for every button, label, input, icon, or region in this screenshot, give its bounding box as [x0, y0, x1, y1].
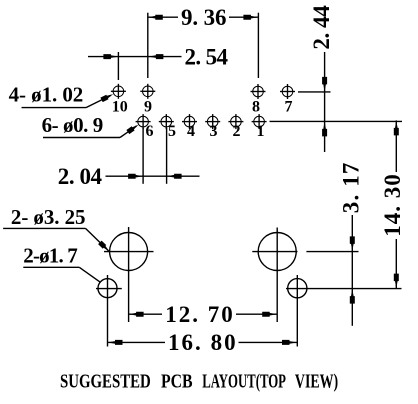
svg-text:3. 17: 3. 17: [339, 163, 364, 214]
dim 14.30 line bottom: [395, 239, 397, 289]
dim 9.36 line right: [229, 16, 258, 18]
pad 10: [111, 84, 126, 99]
dim 2.54 line: [88, 56, 182, 58]
svg-text:6- ø0. 9: 6- ø0. 9: [42, 113, 104, 137]
hole small right: [288, 279, 307, 298]
arrow 14.30 top: [394, 120, 399, 135]
leader arrow 2-o3.25: [98, 241, 109, 252]
svg-text:8: 8: [252, 99, 260, 116]
center line small right vertical: [296, 275, 298, 347]
dim 14.30 line top: [395, 120, 397, 172]
center line big right vertical: [276, 228, 278, 323]
arrow 2.54 right: [148, 54, 163, 59]
dim 3.17 line: [351, 215, 353, 326]
dim 2.54 ext: [117, 52, 119, 80]
dim 2.04 ext right: [166, 128, 168, 184]
svg-text:4- ø1. 02: 4- ø1. 02: [9, 83, 84, 107]
svg-text:2: 2: [233, 123, 241, 140]
leader arrow 6-o0.9: [126, 125, 138, 135]
center line big right horizontal ext: [306, 251, 358, 253]
svg-text:2. 04: 2. 04: [58, 164, 103, 189]
svg-text:SUGGESTED: SUGGESTED: [60, 371, 151, 393]
svg-text:2- ø3. 25: 2- ø3. 25: [11, 205, 86, 229]
svg-text:2-ø1. 7: 2-ø1. 7: [23, 244, 78, 268]
svg-text:12. 70: 12. 70: [165, 302, 232, 327]
leader 4-o1.02 diagonal: [86, 96, 111, 108]
svg-text:LAYOUT(TOP: LAYOUT(TOP: [202, 371, 286, 393]
arrow 2.04 left: [128, 174, 143, 179]
arrow 2.04 right: [167, 174, 182, 179]
arrow 9.36 right: [243, 15, 258, 20]
svg-text:4: 4: [187, 123, 195, 140]
svg-text:14. 30: 14. 30: [380, 174, 405, 236]
svg-text:PCB: PCB: [161, 371, 193, 393]
pad 1: [252, 114, 267, 129]
leader 6-o0.9 underline: [43, 137, 120, 139]
dim 9.36 ext right: [257, 13, 259, 78]
dim 12.70 line left: [129, 313, 162, 315]
center line big right horizontal: [252, 251, 297, 253]
arrow 9.36 left: [148, 15, 163, 20]
arrow 3.17 top: [350, 236, 355, 251]
arrow 3.17 bottom: [350, 289, 355, 304]
svg-text:6: 6: [146, 123, 154, 140]
svg-text:5: 5: [168, 123, 176, 140]
svg-text:2. 44: 2. 44: [309, 5, 334, 50]
pad 6: [136, 114, 151, 129]
arrow 16.80 left: [108, 340, 123, 345]
dim 16.80 line right: [239, 341, 298, 343]
dim 9.36 ext left: [147, 13, 149, 78]
leader 2-o1.7 underline: [23, 266, 79, 268]
pad 3: [205, 114, 220, 129]
arrow 12.70 left: [129, 312, 144, 317]
pad 4: [182, 114, 197, 129]
pad 9: [140, 84, 155, 99]
leader arrow 4-o1.02: [100, 94, 113, 102]
center line big left vertical: [128, 227, 130, 322]
arrow 2.44 top: [322, 77, 327, 92]
center line big left horizontal: [104, 251, 154, 253]
hole small left: [98, 279, 117, 298]
leader 2-o3.25 underline: [3, 227, 85, 229]
svg-text:3: 3: [210, 123, 218, 140]
svg-text:2. 54: 2. 54: [185, 44, 229, 69]
pad 7 extension line: [298, 91, 331, 93]
svg-text:9. 36: 9. 36: [181, 5, 227, 30]
svg-text:VIEW): VIEW): [295, 371, 338, 393]
arrow 14.30 bottom: [394, 274, 399, 289]
mounting hole big right: [258, 233, 296, 271]
title text: [60, 371, 338, 393]
pad 5: [159, 114, 174, 129]
dim 2.04 line: [106, 175, 200, 177]
dim 9.36 line left: [148, 16, 178, 18]
leader 2-o1.7 diagonal: [79, 267, 100, 282]
dim 12.70 line right: [236, 313, 277, 315]
pad 7: [280, 84, 295, 99]
center line small left vertical: [107, 275, 109, 347]
arrow 12.70 right: [262, 312, 277, 317]
arrow 2.54 left: [103, 54, 118, 59]
leader 6-o0.9 diagonal: [120, 126, 137, 138]
mounting hole big left: [110, 233, 148, 271]
dim 2.04 ext left: [142, 128, 144, 184]
leader 4-o1.02 underline: [22, 107, 87, 109]
svg-text:1: 1: [257, 123, 265, 140]
center line small left horizontal: [96, 288, 122, 290]
svg-text:9: 9: [144, 99, 152, 116]
svg-text:10: 10: [112, 99, 128, 116]
dim 2.44 line: [324, 52, 326, 152]
pad 8: [251, 84, 266, 99]
arrow 16.80 right: [282, 340, 297, 345]
leader 2-o3.25 diagonal: [86, 228, 110, 251]
dim 16.80 line left: [108, 341, 166, 343]
svg-text:7: 7: [285, 99, 293, 116]
pad 1 row extension line: [270, 120, 403, 122]
arrow 2.44 bottom: [322, 121, 327, 136]
svg-text:16. 80: 16. 80: [168, 330, 236, 355]
pad 2: [228, 114, 243, 129]
center line small right horizontal: [286, 288, 402, 290]
